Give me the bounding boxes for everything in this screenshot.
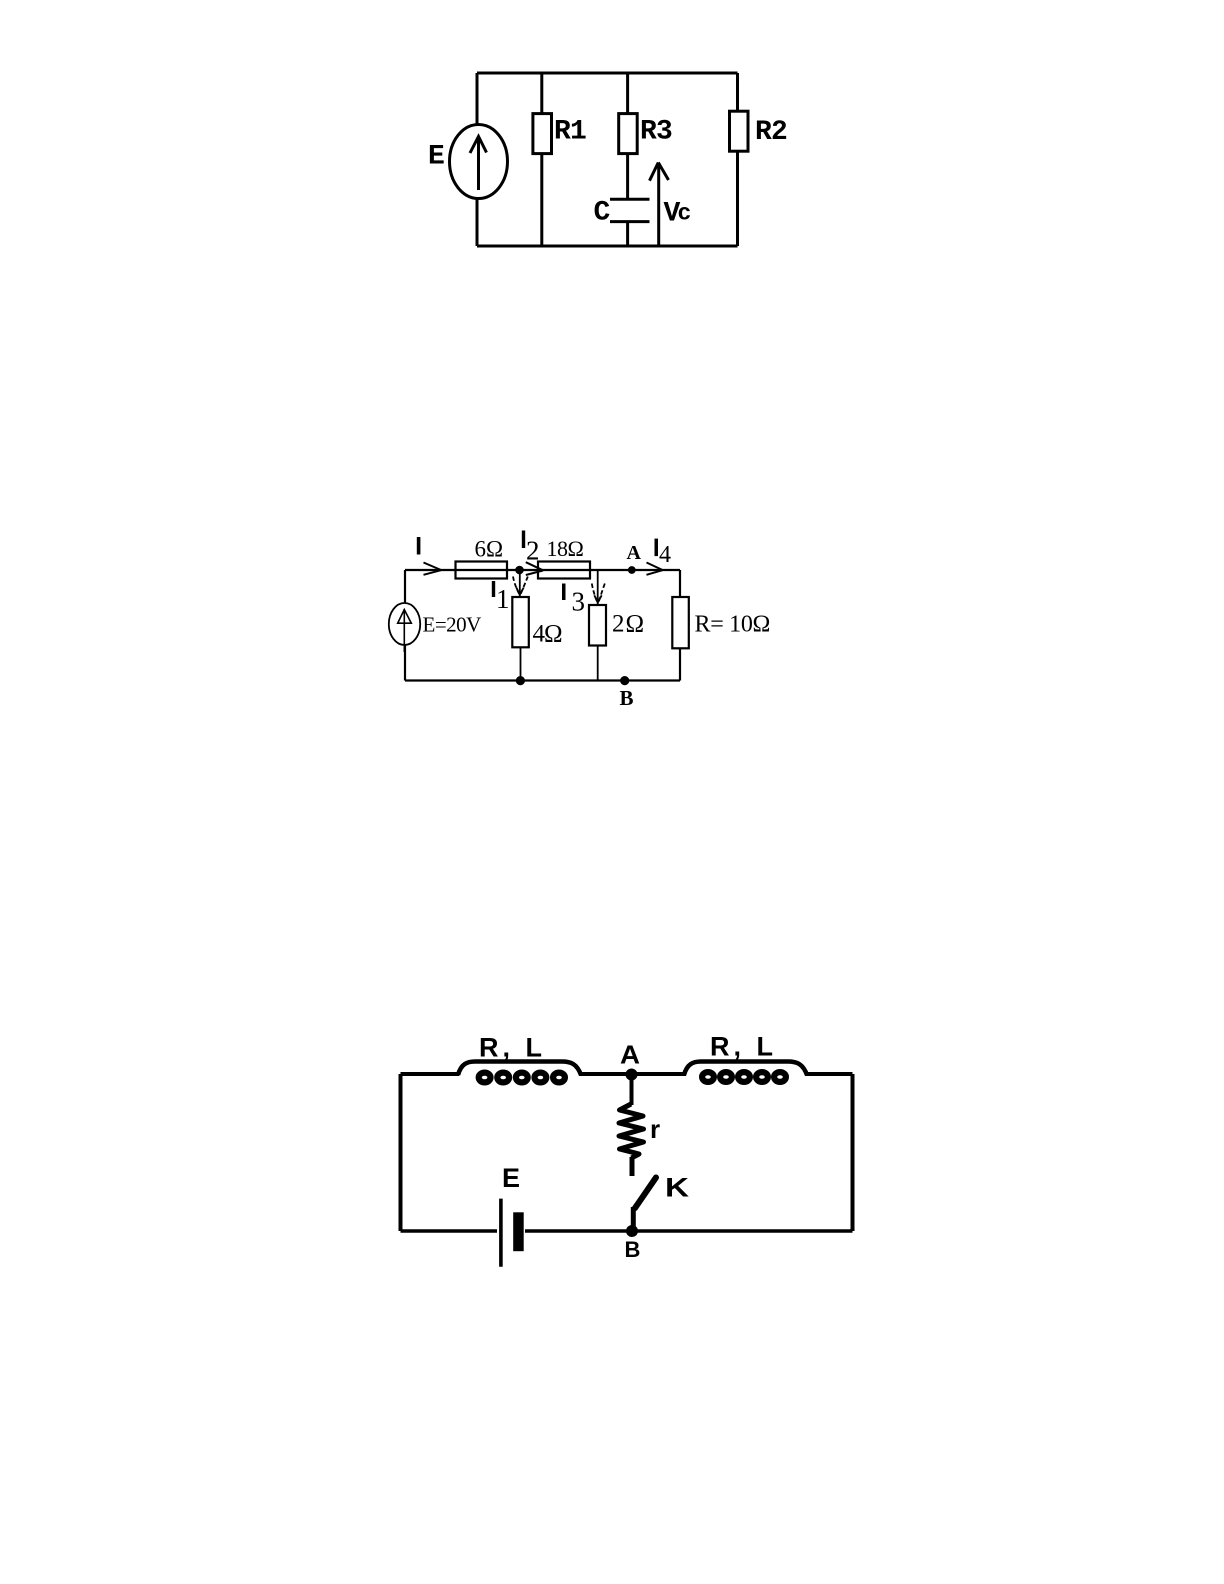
node junction dot after 6ohm [515, 566, 524, 575]
wire R2 branch upper [736, 73, 739, 111]
inductor R,L left hump [458, 1062, 581, 1076]
switch K arm [635, 1178, 656, 1209]
svg-text:A: A [620, 1040, 640, 1070]
wire R3 to capacitor [626, 154, 629, 198]
wire 2ohm to bottom rail [597, 646, 599, 681]
resistor r zigzag [619, 1104, 644, 1158]
wire r to switch [630, 1157, 635, 1176]
node A dot [628, 566, 636, 574]
current I1 arrow dashed [513, 577, 528, 595]
wire bottom rail circuit2 [405, 679, 680, 681]
wire capacitor to bottom rail [626, 223, 629, 246]
svg-text:E=20V: E=20V [423, 613, 482, 637]
svg-text:R3: R3 [640, 117, 672, 148]
current I arrowhead [424, 563, 442, 575]
svg-text:E: E [428, 142, 445, 173]
svg-text:1: 1 [496, 584, 510, 614]
svg-text:4: 4 [659, 542, 671, 568]
wire R2 branch lower [736, 151, 739, 246]
current I3 arrow tip [594, 595, 601, 602]
svg-text:K: K [665, 1173, 690, 1203]
svg-text:R, L: R, L [479, 1033, 546, 1063]
inductor R,L right hump [684, 1062, 807, 1076]
svg-text:E: E [502, 1163, 520, 1193]
current source E circle [450, 125, 508, 199]
svg-text:2Ω: 2Ω [612, 611, 645, 638]
node dot bottom left [516, 676, 525, 685]
wire left branch above source E [476, 73, 479, 125]
svg-text:18Ω: 18Ω [547, 536, 584, 561]
wire bottom rail left of battery [401, 1229, 498, 1233]
wire top rail circuit1 [477, 72, 738, 75]
current I1 arrow tip [516, 588, 523, 595]
label I1 [492, 581, 495, 597]
current I4 arrowhead [647, 563, 663, 575]
battery E thick plate [513, 1212, 524, 1251]
inductor R,L left loops [479, 1073, 565, 1083]
wire top rail to 2ohm [597, 570, 599, 605]
wire top rail segment middle [579, 1072, 686, 1076]
inductor R,L right loops [702, 1072, 786, 1082]
wire left branch above source [404, 570, 406, 604]
capacitor C [610, 199, 650, 221]
wire node to 4ohm [519, 570, 521, 597]
svg-text:R, L: R, L [710, 1032, 777, 1062]
label I2 [522, 531, 525, 549]
wire top rail segment left [401, 1072, 460, 1076]
wire node A down [630, 1074, 634, 1105]
current I3 arrow dashed [592, 584, 605, 603]
svg-text:c: c [678, 201, 692, 227]
node B dot circuit3 [626, 1225, 638, 1237]
svg-text:R2: R2 [755, 117, 787, 148]
resistor 2ohm [589, 605, 606, 646]
current I2 arrowhead [526, 562, 543, 575]
wire top rail segment right [805, 1072, 853, 1076]
resistor 4ohm [512, 597, 529, 647]
node A dot circuit3 [626, 1069, 638, 1081]
label I4 [655, 539, 659, 557]
svg-text:B: B [625, 1237, 641, 1262]
wire left branch below source E [476, 199, 479, 247]
svg-text:4Ω: 4Ω [533, 621, 563, 648]
resistor R2 [730, 111, 749, 151]
node B dot [620, 676, 629, 685]
wire 4ohm to bottom rail [520, 647, 522, 680]
voltage arrow Vc [650, 163, 669, 247]
wire R3 branch upper [626, 73, 629, 114]
wire right branch lower [679, 648, 681, 680]
wire bottom rail right of battery [525, 1229, 853, 1233]
label I [417, 537, 421, 555]
svg-text:2: 2 [526, 535, 540, 565]
wire bottom rail circuit1 [477, 245, 738, 248]
svg-text:6Ω: 6Ω [475, 537, 504, 562]
wire R1 branch upper [540, 73, 543, 114]
current source E arrow [470, 137, 487, 191]
resistor R3 [619, 114, 638, 154]
wire left branch below source [404, 645, 406, 681]
svg-text:3: 3 [572, 587, 586, 617]
svg-text:R1: R1 [554, 117, 586, 148]
source E=20V arrow [398, 610, 412, 653]
svg-text:A: A [627, 542, 642, 564]
resistor 18ohm [538, 562, 590, 579]
wire right branch upper [679, 570, 681, 597]
svg-text:r: r [650, 1114, 660, 1144]
wire right side circuit3 [851, 1074, 855, 1231]
svg-text:B: B [620, 686, 634, 710]
wire R1 branch lower [540, 154, 543, 246]
resistor 6ohm [456, 562, 508, 579]
source E=20V circle [389, 603, 420, 645]
wire top rail circuit2 [405, 569, 680, 571]
wire left side circuit3 [399, 1074, 403, 1231]
resistor R1 [533, 114, 552, 154]
switch K stub [631, 1207, 636, 1228]
svg-text:C: C [594, 198, 611, 229]
resistor R 10ohm [672, 597, 689, 648]
label I3 [562, 584, 566, 601]
battery E thin plate [499, 1199, 503, 1267]
svg-text:R= 10Ω: R= 10Ω [695, 612, 771, 638]
